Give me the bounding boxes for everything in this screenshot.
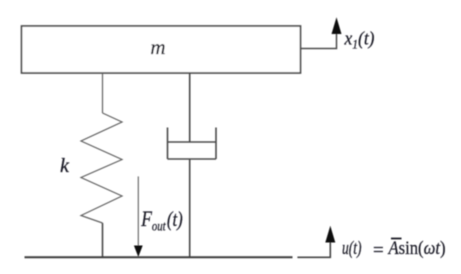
arrowhead u(t) (up) [325, 226, 335, 243]
svg-text:=: = [373, 240, 384, 261]
svg-text:x1(t): x1(t) [344, 29, 375, 52]
mass m (rectangle) [22, 26, 301, 73]
spring k (zigzag) [81, 113, 122, 223]
overbar of A [391, 238, 402, 240]
input node wire u(t): short base line with up arrow [297, 240, 330, 257]
svg-text:Fout(t): Fout(t) [140, 206, 182, 234]
ground line [25, 256, 293, 258]
svg-text:Asin(ωt): Asin(ωt) [387, 238, 446, 259]
arrowhead x1(t) (up) [332, 17, 342, 34]
svg-text:u(t): u(t) [342, 238, 362, 259]
damper B: cup bottom [168, 158, 217, 160]
svg-text:k: k [60, 155, 70, 177]
damper B: bottom rod [189, 159, 191, 257]
damper B: piston plate [168, 141, 217, 143]
force arrow Fout(t) (downward) [137, 176, 139, 246]
damper B: cup left wall [167, 128, 169, 160]
wire: spring top rod [102, 73, 104, 113]
wire: spring bottom rod [102, 223, 104, 257]
damper B: cup right wall [215, 128, 217, 160]
svg-text:m: m [150, 35, 165, 59]
damper B: top rod [189, 73, 191, 142]
output node wire x1(t): horizontal from mass [301, 32, 337, 49]
